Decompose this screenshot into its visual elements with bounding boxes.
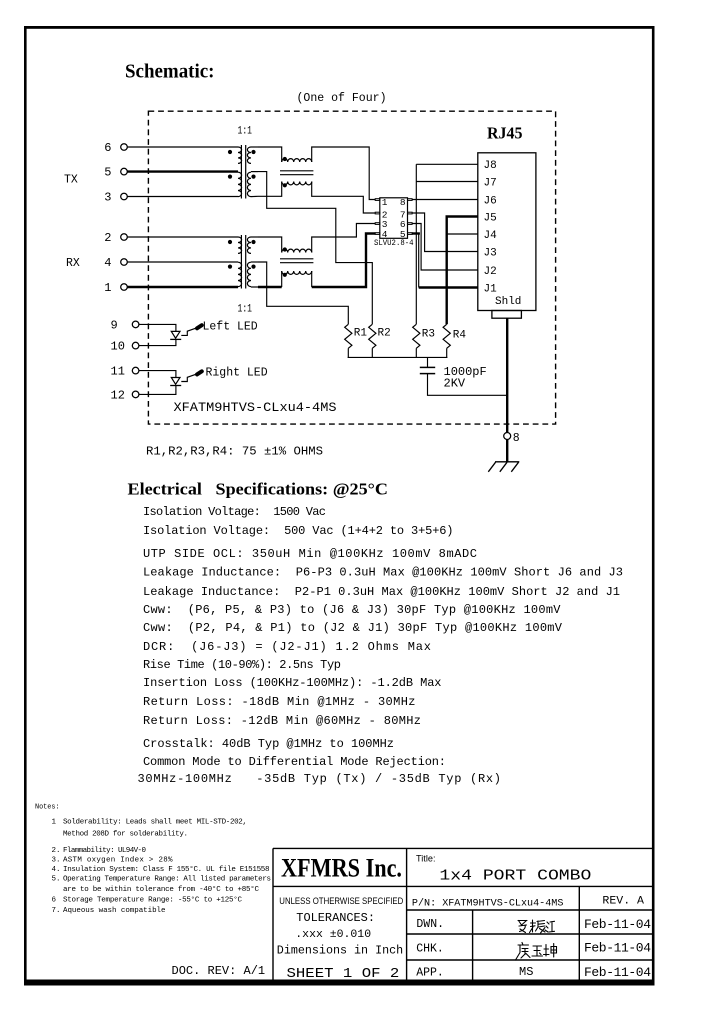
svg-text:CHK.: CHK. bbox=[416, 943, 444, 956]
svg-text:11: 11 bbox=[111, 365, 125, 379]
svg-text:Schematic:: Schematic: bbox=[125, 61, 215, 83]
svg-text:30MHz-100MHz -35dB Typ (Tx): 30MHz-100MHz -35dB Typ (Tx) / -35dB Typ … bbox=[138, 772, 501, 786]
svg-text:MS: MS bbox=[519, 965, 533, 979]
svg-text:R2: R2 bbox=[378, 328, 391, 340]
svg-text:.xxx ±0.010: .xxx ±0.010 bbox=[295, 929, 371, 941]
svg-text:Feb-11-04: Feb-11-04 bbox=[584, 941, 651, 956]
svg-text:Operating Temperature Range: A: Operating Temperature Range: All listed … bbox=[63, 876, 271, 884]
svg-text:J1: J1 bbox=[484, 283, 498, 295]
svg-text:DCR: (J6-J3) = (J2-J1) 1.2 Oh: DCR: (J6-J3) = (J2-J1) 1.2 Ohms Max bbox=[143, 640, 431, 654]
svg-text:6: 6 bbox=[104, 141, 111, 155]
svg-text:2.: 2. bbox=[52, 847, 61, 855]
svg-text:(One of Four): (One of Four) bbox=[297, 91, 387, 105]
svg-text:9: 9 bbox=[111, 318, 118, 332]
svg-text:J2: J2 bbox=[484, 266, 497, 278]
svg-text:1:1: 1:1 bbox=[238, 126, 253, 138]
svg-text:1x4 PORT COMBO: 1x4 PORT COMBO bbox=[439, 868, 591, 885]
svg-text:1: 1 bbox=[104, 281, 111, 295]
svg-text:R4: R4 bbox=[453, 330, 467, 342]
svg-text:Electrical Specifications: @: Electrical Specifications: @25°C bbox=[128, 480, 389, 499]
svg-text:Aqueous wash compatible: Aqueous wash compatible bbox=[63, 907, 166, 915]
svg-text:12: 12 bbox=[111, 388, 125, 402]
svg-text:5: 5 bbox=[104, 166, 111, 180]
svg-text:DWN.: DWN. bbox=[416, 918, 444, 931]
svg-text:R1: R1 bbox=[354, 328, 368, 340]
svg-text:XFMRS Inc.: XFMRS Inc. bbox=[281, 854, 402, 883]
svg-text:5.: 5. bbox=[52, 876, 61, 884]
svg-text:Feb-11-04: Feb-11-04 bbox=[584, 965, 651, 980]
svg-text:SLVU2.8-4: SLVU2.8-4 bbox=[374, 239, 414, 248]
svg-text:Cww: (P2, P4, & P1) to (J2 &: Cww: (P2, P4, & P1) to (J2 & J1) 30pF Ty… bbox=[143, 621, 563, 635]
svg-text:Return Loss: -12dB Min @60MHz: Return Loss: -12dB Min @60MHz - 80MHz bbox=[143, 714, 421, 728]
svg-text:Common Mode to Differential Mo: Common Mode to Differential Mode Rejecti… bbox=[143, 755, 446, 769]
svg-text:Cww: (P6, P5, & P3) to (J6 &: Cww: (P6, P5, & P3) to (J6 & J3) 30pF Ty… bbox=[143, 603, 561, 617]
svg-text:1: 1 bbox=[382, 197, 388, 208]
svg-text:3: 3 bbox=[104, 191, 111, 205]
svg-text:P/N: XFATM9HTVS-CLxu4-4MS: P/N: XFATM9HTVS-CLxu4-4MS bbox=[412, 898, 564, 910]
svg-text:2: 2 bbox=[104, 231, 111, 245]
svg-text:TOLERANCES:: TOLERANCES: bbox=[296, 911, 375, 925]
svg-text:Insulation System: Class F 155: Insulation System: Class F 155°C. UL fil… bbox=[63, 865, 270, 874]
svg-text:SHEET 1 OF 2: SHEET 1 OF 2 bbox=[287, 967, 400, 982]
svg-text:R3: R3 bbox=[422, 329, 435, 341]
svg-text:RJ45: RJ45 bbox=[487, 124, 523, 143]
svg-text:10: 10 bbox=[111, 340, 125, 354]
svg-text:UNLESS OTHERWISE SPECIFIED: UNLESS OTHERWISE SPECIFIED bbox=[279, 896, 403, 907]
svg-text:Insertion Loss (100KHz-100MHz): Insertion Loss (100KHz-100MHz): -1.2dB M… bbox=[143, 676, 442, 690]
svg-text:TX: TX bbox=[64, 174, 78, 187]
svg-text:Isolation Voltage: 500 Vac (1: Isolation Voltage: 500 Vac (1+4+2 to 3+5… bbox=[143, 524, 454, 538]
svg-text:6: 6 bbox=[52, 897, 57, 905]
svg-text:J6: J6 bbox=[484, 195, 497, 207]
svg-text:J7: J7 bbox=[484, 177, 497, 189]
svg-text:J3: J3 bbox=[484, 247, 497, 259]
svg-text:Crosstalk: 40dB Typ @1MHz to 1: Crosstalk: 40dB Typ @1MHz to 100MHz bbox=[143, 737, 394, 751]
svg-text:Notes:: Notes: bbox=[35, 804, 60, 812]
svg-text:Isolation Voltage: 1500 Vac: Isolation Voltage: 1500 Vac bbox=[143, 505, 326, 519]
svg-text:APP.: APP. bbox=[416, 966, 444, 979]
svg-text:UTP SIDE OCL: 350uH Min @100KH: UTP SIDE OCL: 350uH Min @100KHz 100mV 8m… bbox=[143, 547, 477, 561]
svg-text:4.: 4. bbox=[52, 866, 61, 874]
svg-text:XFATM9HTVS-CLxu4-4MS: XFATM9HTVS-CLxu4-4MS bbox=[174, 400, 337, 415]
svg-text:Left LED: Left LED bbox=[203, 321, 258, 334]
svg-text:Return Loss: -18dB Min @1MHz -: Return Loss: -18dB Min @1MHz - 30MHz bbox=[143, 695, 416, 709]
svg-text:Leakage Inductance: P6-P3 0.3: Leakage Inductance: P6-P3 0.3uH Max @100… bbox=[143, 566, 623, 580]
svg-text:Dimensions in Inch: Dimensions in Inch bbox=[277, 945, 403, 958]
svg-text:J4: J4 bbox=[484, 230, 498, 242]
svg-text:8: 8 bbox=[513, 432, 520, 445]
svg-text:Flammability: UL94V-0: Flammability: UL94V-0 bbox=[63, 847, 146, 855]
svg-text:3.: 3. bbox=[52, 857, 61, 865]
svg-text:Leakage Inductance: P2-P1 0.3: Leakage Inductance: P2-P1 0.3uH Max @100… bbox=[143, 585, 620, 599]
svg-text:Storage Temperature Range: -55: Storage Temperature Range: -55°C to +125… bbox=[63, 896, 242, 905]
svg-text:ASTM oxygen Index > 28%: ASTM oxygen Index > 28% bbox=[63, 857, 173, 865]
svg-text:R1,R2,R3,R4: 75 ±1% OHMS: R1,R2,R3,R4: 75 ±1% OHMS bbox=[146, 445, 323, 459]
svg-text:1:1: 1:1 bbox=[238, 304, 253, 316]
svg-text:7.: 7. bbox=[52, 907, 61, 915]
svg-text:RX: RX bbox=[66, 257, 80, 270]
svg-text:1: 1 bbox=[52, 819, 57, 827]
svg-text:Solderability: Leads shall mee: Solderability: Leads shall meet MIL-STD-… bbox=[63, 819, 247, 827]
svg-text:Shld: Shld bbox=[495, 296, 521, 308]
svg-text:Title:: Title: bbox=[416, 854, 436, 864]
svg-text:DOC. REV: A/1: DOC. REV: A/1 bbox=[172, 964, 266, 978]
svg-text:8: 8 bbox=[400, 197, 406, 208]
svg-text:J5: J5 bbox=[484, 212, 497, 224]
svg-text:Method 208D for solderability.: Method 208D for solderability. bbox=[63, 831, 188, 839]
svg-text:Rise Time (10-90%): 2.5ns Typ: Rise Time (10-90%): 2.5ns Typ bbox=[143, 658, 341, 672]
svg-text:Feb-11-04: Feb-11-04 bbox=[584, 917, 651, 932]
svg-text:Right LED: Right LED bbox=[206, 367, 268, 380]
svg-text:J8: J8 bbox=[484, 160, 497, 172]
svg-text:4: 4 bbox=[104, 256, 111, 270]
svg-text:2KV: 2KV bbox=[444, 377, 466, 391]
svg-text:REV. A: REV. A bbox=[602, 896, 644, 908]
svg-text:are to be within tolerance fro: are to be within tolerance from -40°C to… bbox=[63, 885, 259, 894]
